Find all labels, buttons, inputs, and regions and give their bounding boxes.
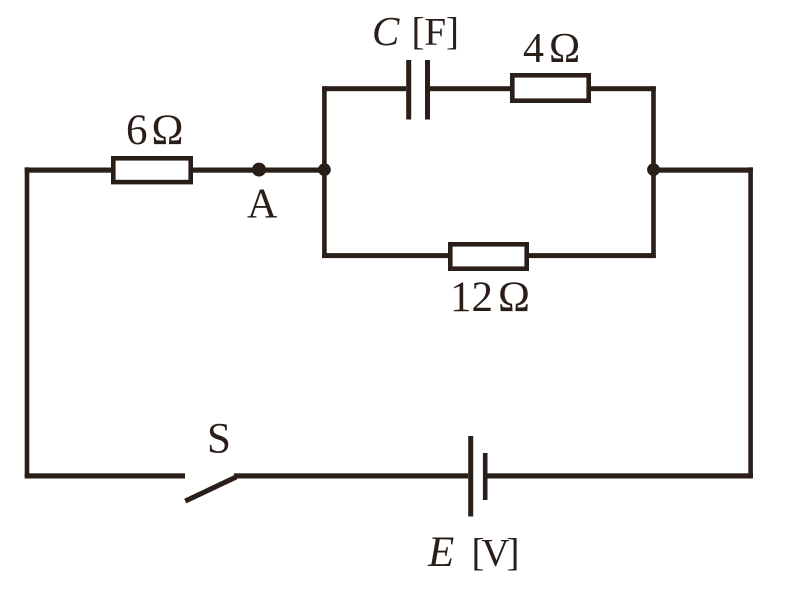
- wire: main rail left segment: [25, 168, 115, 173]
- wire: right rail from junction to outer: [651, 168, 753, 173]
- label C [F]: [372, 8, 459, 54]
- wire: rail from resistor to junction: [193, 168, 327, 173]
- svg-text:C: C: [372, 8, 400, 54]
- wire: bottom right segment battery to corner: [488, 473, 753, 478]
- wire: top branch middle segment: [430, 86, 512, 91]
- svg-text:A: A: [247, 182, 278, 228]
- wire: bottom middle segment switch to battery: [234, 473, 468, 478]
- wire: bottom left segment to switch: [25, 473, 185, 478]
- label 4 Ω: [523, 26, 580, 72]
- label A: [247, 182, 278, 228]
- svg-text:6Ω: 6Ω: [126, 107, 183, 154]
- junction right: [647, 163, 660, 176]
- svg-text:S: S: [207, 416, 231, 463]
- svg-text:12Ω: 12Ω: [450, 274, 530, 321]
- switch S: [188, 478, 235, 500]
- wire: right outer vertical: [748, 167, 753, 477]
- svg-text:[F]: [F]: [412, 11, 460, 54]
- battery E long plate: [468, 436, 473, 517]
- junction left: [318, 163, 331, 176]
- svg-text:4Ω: 4Ω: [523, 26, 580, 72]
- wire: bottom branch left segment: [322, 253, 450, 258]
- label 6 Ω: [126, 107, 183, 154]
- capacitor C: [406, 60, 430, 120]
- wire: left outer vertical: [25, 167, 30, 477]
- node A: [252, 163, 266, 177]
- wire: parallel box left vertical: [322, 86, 327, 258]
- battery E short plate: [483, 453, 488, 500]
- svg-text:E: E: [427, 529, 454, 576]
- wire: top branch right segment: [589, 86, 656, 91]
- label 12 Ω: [450, 274, 530, 321]
- wire: parallel box right vertical: [651, 86, 656, 258]
- label S: [207, 416, 231, 463]
- wire: bottom branch right segment: [527, 253, 656, 258]
- resistor 4Ω: [512, 75, 588, 100]
- wire: top branch left segment: [322, 86, 406, 91]
- resistor 12Ω: [450, 244, 526, 268]
- label E [V]: [427, 529, 520, 576]
- resistor 6Ω: [113, 158, 190, 182]
- svg-text:[V]: [V]: [472, 532, 520, 575]
